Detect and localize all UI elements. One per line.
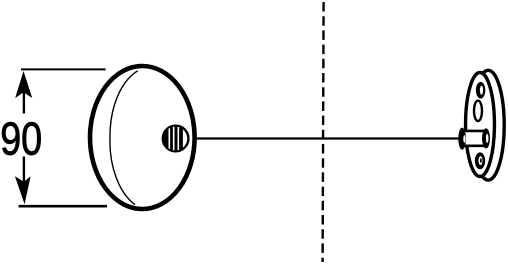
dimension extension line bottom: [19, 205, 107, 208]
bracket lower screw hole (ring): [475, 152, 485, 169]
peg flange: [458, 128, 466, 150]
dimension arrow up: [15, 71, 32, 114]
bracket top screw hole (dark): [476, 82, 485, 99]
dimension extension line top: [21, 68, 106, 70]
peg cylinder (cord anchor): [462, 131, 486, 146]
knob (cord outlet): [160, 124, 188, 153]
dimension label 90: [0, 113, 42, 165]
svg-text:90: 90: [0, 113, 42, 165]
drum rim inner edge (thin arc): [110, 71, 138, 205]
peg base ellipse: [482, 128, 490, 148]
drum (reel housing) outer ellipse: [90, 66, 195, 209]
dashed centerline: [323, 2, 324, 262]
bracket back plate (outer edge): [472, 70, 504, 180]
bracket face plate: [466, 73, 495, 177]
wire (cord from drum to bracket): [194, 137, 460, 139]
dimension arrow down: [15, 157, 31, 205]
bracket keyhole slot: [474, 101, 482, 122]
